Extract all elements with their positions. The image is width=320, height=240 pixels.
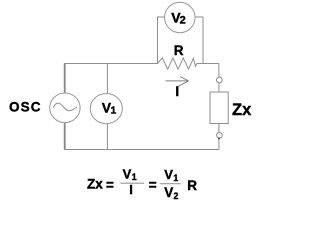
svg-text:2: 2 xyxy=(180,15,186,27)
wire right column above top terminal xyxy=(218,64,220,78)
terminal bottom xyxy=(217,132,223,138)
wire left vertical upper xyxy=(64,64,66,93)
oscillator source OSC xyxy=(50,93,80,123)
wire bottom terminal to bottom rail xyxy=(218,138,220,149)
wire Zx box to bottom terminal xyxy=(218,124,220,133)
svg-text:Zx: Zx xyxy=(232,101,252,119)
svg-text:I: I xyxy=(129,182,133,197)
svg-text:OSC: OSC xyxy=(9,100,42,115)
wire V1 branch lower xyxy=(106,124,108,150)
formula fraction 1 bar xyxy=(120,182,144,184)
svg-text:1: 1 xyxy=(132,172,137,182)
svg-text:1: 1 xyxy=(173,173,178,183)
svg-text:2: 2 xyxy=(174,191,179,201)
wire top rail right stub xyxy=(197,63,219,65)
svg-text:1: 1 xyxy=(111,106,117,117)
svg-text:=: = xyxy=(149,178,157,193)
wire top rail left segment xyxy=(64,63,158,65)
voltmeter V2 xyxy=(165,2,196,33)
wire left vertical lower xyxy=(64,123,66,150)
svg-text:=: = xyxy=(106,178,114,193)
wire top terminal to Zx box xyxy=(218,83,220,92)
svg-text:V: V xyxy=(123,166,132,181)
wire V2 left branch xyxy=(158,17,166,64)
terminal bottom contact mark xyxy=(218,137,220,139)
resistor R xyxy=(158,58,198,69)
wire V2 right branch xyxy=(195,17,203,64)
voltmeter V1 xyxy=(90,94,122,124)
terminal top xyxy=(216,77,222,83)
wire bottom rail xyxy=(64,149,219,151)
svg-text:I: I xyxy=(175,84,179,99)
svg-text:V: V xyxy=(164,185,173,200)
wire V1 branch upper xyxy=(106,64,108,93)
impedance box Zx xyxy=(210,92,228,124)
svg-text:Zx: Zx xyxy=(87,177,103,192)
sine wave inside OSC xyxy=(53,103,77,111)
formula fraction 2 bar xyxy=(160,183,181,185)
current arrow I xyxy=(166,77,189,87)
svg-text:R: R xyxy=(174,43,184,58)
svg-text:R: R xyxy=(187,178,197,193)
svg-text:V: V xyxy=(164,167,173,182)
